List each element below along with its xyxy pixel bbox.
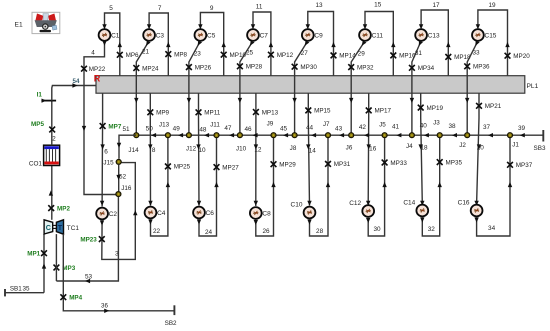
pipe number 18	[420, 144, 428, 151]
wire intake pipe 14 from plenum to C10	[306, 93, 312, 206]
svg-text:J9: J9	[267, 121, 274, 128]
measuring point MP12	[268, 52, 294, 59]
svg-text:54: 54	[73, 78, 80, 85]
measuring point MP10	[221, 52, 247, 59]
measuring point MP24	[133, 65, 159, 72]
svg-text:SB1: SB1	[10, 285, 22, 292]
measuring point MP14	[331, 53, 357, 60]
pipe number 13	[315, 2, 323, 9]
svg-text:14: 14	[309, 147, 317, 154]
measuring point MP13	[253, 109, 279, 116]
wire pipe 54 from injector to plenum	[52, 83, 96, 100]
svg-text:MP36: MP36	[473, 64, 490, 71]
pipe number 37 with flow arrow	[483, 124, 493, 137]
svg-text:MP27: MP27	[222, 164, 239, 171]
pipe number 23	[194, 51, 202, 58]
turbocharger TC1	[44, 220, 79, 234]
measuring point MP28	[237, 63, 263, 70]
cylinder C7	[247, 29, 268, 41]
svg-text:MP17: MP17	[375, 108, 392, 115]
wire intake pipe 8 from plenum to C4	[148, 93, 153, 206]
measuring point MP33	[382, 160, 408, 167]
wire exhaust pipe 23 from C5 to junction	[187, 40, 202, 135]
svg-text:J16: J16	[121, 185, 132, 192]
wire intake pipe 18 from plenum to C14	[419, 93, 425, 206]
svg-text:27: 27	[301, 50, 309, 57]
pipe number 43 with flow arrow	[335, 126, 344, 138]
svg-text:C: C	[46, 223, 51, 232]
svg-text:MP3: MP3	[62, 265, 75, 272]
svg-text:MP26: MP26	[195, 64, 212, 71]
measuring point MP29	[271, 161, 297, 168]
svg-text:MP11: MP11	[204, 110, 220, 117]
svg-text:49: 49	[173, 126, 181, 133]
pipe number 48 with flow arrow	[199, 126, 209, 137]
svg-text:C5: C5	[207, 32, 216, 39]
pipe number 52	[119, 174, 126, 181]
pipe number 32	[428, 226, 436, 233]
svg-text:TC1: TC1	[67, 225, 80, 232]
junction J6	[346, 133, 354, 152]
junction J9	[267, 121, 276, 138]
pipe number 41 with flow arrow	[392, 123, 401, 137]
wire exhaust loop pipe 24 from C6 to junction	[197, 135, 219, 236]
junction J15	[103, 159, 121, 166]
measuring point MP21	[476, 103, 502, 110]
pipe number 19	[488, 2, 496, 9]
svg-text:C1: C1	[111, 32, 120, 39]
measuring point MP26	[186, 64, 212, 71]
svg-text:36: 36	[101, 303, 108, 310]
measuring point MP7	[100, 123, 122, 130]
wire exhaust pipe 31 from C13 to junction	[410, 40, 423, 135]
svg-text:J4: J4	[406, 143, 413, 150]
svg-text:I1: I1	[37, 92, 43, 99]
svg-text:34: 34	[488, 225, 496, 232]
svg-text:25: 25	[246, 50, 254, 57]
pipe number 16	[369, 146, 377, 153]
junction J10	[236, 133, 247, 153]
svg-text:11: 11	[256, 4, 263, 11]
measuring point MP35	[437, 159, 463, 166]
junction J7	[323, 121, 331, 138]
cylinder C10	[291, 202, 316, 219]
svg-text:MP6: MP6	[126, 52, 139, 59]
wire intake pipe 12 from plenum to C8	[254, 93, 259, 206]
svg-text:MP31: MP31	[334, 161, 351, 168]
measuring point MP3	[54, 234, 76, 281]
svg-text:C10: C10	[291, 202, 303, 209]
svg-text:J3: J3	[433, 119, 440, 126]
svg-text:J6: J6	[346, 145, 353, 152]
svg-text:9: 9	[210, 5, 214, 12]
svg-text:29: 29	[358, 51, 366, 58]
svg-text:30: 30	[373, 226, 381, 233]
cylinder C9	[302, 29, 323, 41]
svg-text:MP25: MP25	[174, 164, 191, 171]
svg-text:J2: J2	[459, 142, 466, 149]
svg-text:48: 48	[199, 126, 207, 133]
wire intake loop pipe 9 for C5	[198, 13, 226, 76]
pipe number 39 with flow arrow	[518, 125, 526, 137]
wire exhaust pipe 29 from C11 to junction	[349, 40, 366, 135]
wire exhaust loop pipe 26 from C8 to junction	[254, 135, 276, 236]
measuring point MP27	[214, 164, 240, 171]
svg-text:CO1: CO1	[29, 161, 43, 168]
svg-text:MP20: MP20	[513, 53, 530, 60]
measuring point MP1	[27, 250, 47, 257]
svg-text:42: 42	[359, 124, 367, 131]
svg-text:MP22: MP22	[89, 66, 106, 73]
system boundary SB1	[5, 285, 44, 296]
svg-text:MP2: MP2	[57, 205, 70, 212]
pipe number 44 with flow arrow	[306, 125, 316, 138]
cylinder C6	[193, 207, 214, 219]
cylinder C4	[145, 207, 166, 219]
measuring point MP16	[390, 53, 416, 60]
wire exhaust pipe 25 from C7 to junction	[238, 40, 255, 135]
pipe number 28	[316, 228, 324, 235]
measuring point MP32	[348, 64, 374, 71]
svg-text:MP28: MP28	[246, 64, 263, 71]
cooler CO1	[29, 145, 60, 167]
pipe number 47 with flow arrow	[224, 125, 234, 138]
svg-text:50: 50	[146, 125, 154, 132]
pipe number 50 with flow arrow	[146, 125, 156, 137]
svg-text:C6: C6	[206, 210, 215, 217]
junction J3	[433, 119, 442, 137]
svg-text:16: 16	[369, 146, 377, 153]
pipe number 10	[198, 147, 206, 154]
svg-text:MP33: MP33	[390, 160, 407, 167]
svg-text:E1: E1	[15, 22, 23, 29]
measuring point MP6	[117, 52, 139, 59]
pipe number 46 with flow arrow	[244, 126, 257, 137]
pipe number 29	[358, 51, 366, 58]
measuring point MP11	[196, 109, 221, 116]
wire intake loop pipe 7 for C3	[147, 13, 171, 76]
svg-text:38: 38	[448, 123, 456, 130]
svg-text:MP13: MP13	[262, 109, 279, 116]
wire intake loop pipe 13 for C9	[306, 12, 336, 76]
svg-text:MP29: MP29	[279, 162, 296, 169]
pipe number 20	[477, 144, 485, 151]
pipe number 17	[432, 2, 440, 9]
measuring point MP19	[418, 105, 444, 112]
pipe number 54	[73, 78, 80, 85]
pipe number 40 with flow arrow	[420, 123, 429, 138]
svg-text:12: 12	[254, 147, 262, 154]
svg-text:8: 8	[152, 147, 156, 154]
svg-text:53: 53	[85, 273, 93, 280]
svg-text:J5: J5	[379, 121, 386, 128]
wire exhaust loop pipe 28 from C10 to junction	[307, 135, 330, 236]
svg-text:C4: C4	[157, 210, 166, 217]
svg-text:J8: J8	[290, 145, 297, 152]
wire exhaust loop pipe 32 from C14 to junction	[420, 135, 442, 236]
svg-text:J12: J12	[186, 146, 197, 153]
svg-text:MP30: MP30	[300, 64, 317, 71]
measuring point MP25	[165, 164, 191, 171]
measuring point MP15	[305, 108, 331, 115]
system boundary SB2	[165, 305, 177, 327]
cylinder C14	[403, 200, 428, 217]
svg-text:C8: C8	[262, 210, 271, 217]
wire intake loop pipe 11 for C7	[251, 12, 273, 76]
cylinder C3	[143, 29, 164, 41]
junction J14	[128, 133, 139, 154]
pipe number 36	[101, 303, 108, 310]
cylinder C13	[415, 29, 440, 41]
measuring point MP2	[48, 205, 70, 212]
svg-text:C14: C14	[403, 200, 415, 207]
svg-text:J11: J11	[210, 122, 220, 129]
measuring point MP4	[60, 294, 82, 301]
pipe number 24	[205, 229, 213, 236]
svg-text:35: 35	[22, 286, 30, 293]
pipe number 33	[472, 50, 480, 57]
measuring point MP37	[507, 162, 533, 169]
pipe number 51	[122, 126, 130, 133]
svg-text:51: 51	[122, 126, 130, 133]
wire intake pipe 35 from SB1 to compressor	[42, 234, 46, 293]
svg-text:MP24: MP24	[142, 65, 159, 72]
svg-text:47: 47	[224, 125, 232, 132]
pipe number 7	[158, 5, 162, 12]
svg-text:C15: C15	[485, 32, 497, 39]
svg-text:C7: C7	[260, 32, 269, 39]
measuring point MP31	[325, 161, 351, 168]
cylinder C5	[195, 29, 216, 41]
system boundary SB3	[534, 130, 546, 152]
svg-text:J1: J1	[512, 142, 519, 149]
wire intake pipe 16 from plenum to C12	[366, 93, 371, 206]
svg-text:20: 20	[477, 144, 485, 151]
svg-text:MP9: MP9	[156, 110, 169, 117]
pipe number 9	[210, 5, 214, 12]
pipe number 14	[309, 147, 317, 154]
pipe number 31	[415, 50, 423, 57]
pipe number 6	[104, 148, 108, 155]
wire pipe 2 from cooler to injector I1	[51, 101, 53, 146]
svg-text:22: 22	[153, 228, 161, 235]
wire intake loop pipe 19 for C15	[476, 10, 510, 76]
svg-text:MP15: MP15	[314, 108, 331, 115]
svg-text:39: 39	[518, 125, 526, 132]
pipe number 8	[152, 147, 156, 154]
svg-text:43: 43	[335, 126, 343, 133]
measuring point MP5	[31, 121, 55, 132]
cylinder C8	[250, 207, 271, 219]
svg-text:4: 4	[91, 50, 95, 57]
svg-text:R: R	[94, 73, 101, 83]
pipe number 27	[301, 50, 309, 57]
pipe number 45 with flow arrow	[280, 125, 288, 137]
svg-text:19: 19	[488, 2, 496, 9]
wire intake loop pipe 17 for C13	[419, 10, 451, 76]
svg-text:C9: C9	[314, 32, 323, 39]
svg-text:52: 52	[119, 174, 126, 181]
injector I1	[37, 92, 56, 103]
svg-text:17: 17	[432, 2, 440, 9]
pipe number 4	[91, 50, 95, 57]
svg-text:J10: J10	[236, 146, 247, 153]
pipe number 38 with flow arrow	[448, 123, 457, 137]
cylinder C15	[472, 29, 497, 41]
engine E1	[32, 12, 60, 33]
measuring point MP36	[464, 63, 490, 70]
svg-text:21: 21	[142, 49, 150, 56]
pipe number 5	[109, 5, 113, 12]
pipe number 3	[115, 251, 119, 258]
svg-text:PL1: PL1	[527, 83, 539, 90]
svg-text:MP4: MP4	[69, 295, 82, 302]
svg-text:10: 10	[198, 147, 206, 154]
pipe number 15	[374, 2, 382, 9]
measuring point MP20	[505, 53, 531, 60]
junction J4	[406, 133, 414, 151]
measuring point MP8	[165, 51, 187, 58]
wire intake loop pipe 5 for C1	[102, 13, 122, 76]
engine label E1	[15, 22, 23, 29]
svg-text:MP35: MP35	[446, 159, 463, 166]
measuring point MP34	[409, 65, 435, 72]
junction J8	[290, 133, 297, 152]
wire pipe 1 from compressor to cooler CO1	[49, 166, 53, 220]
cylinder C1	[99, 29, 120, 41]
wire pipe 36 from turbine to SB2	[63, 234, 174, 313]
measuring point MP9	[147, 109, 169, 116]
svg-text:SB3: SB3	[534, 145, 546, 152]
svg-text:MP19: MP19	[427, 105, 444, 112]
svg-text:6: 6	[104, 148, 108, 155]
svg-text:5: 5	[109, 5, 113, 12]
junction J13	[159, 122, 170, 138]
wire exhaust loop pipe 34 from C16 to junction	[474, 135, 512, 236]
measuring point MP30	[292, 64, 318, 71]
svg-text:SB2: SB2	[165, 320, 177, 327]
pipe number 11	[256, 4, 263, 11]
svg-text:40: 40	[420, 123, 428, 130]
wire pipe 52 from J15 to J16	[116, 165, 120, 192]
svg-text:7: 7	[158, 5, 162, 12]
measuring point MP18	[445, 54, 471, 61]
wire main exhaust manifold line	[136, 134, 543, 136]
svg-text:2: 2	[52, 135, 56, 142]
svg-text:MP21: MP21	[485, 103, 502, 110]
junction J12	[186, 133, 197, 153]
pipe number 2	[52, 135, 56, 142]
svg-text:J13: J13	[159, 122, 170, 129]
svg-text:MP12: MP12	[277, 52, 294, 59]
svg-text:MP8: MP8	[174, 51, 187, 58]
cylinder C11	[359, 29, 383, 41]
svg-text:23: 23	[194, 51, 202, 58]
svg-text:C3: C3	[156, 32, 165, 39]
pipe number 30	[373, 226, 381, 233]
svg-text:C16: C16	[458, 200, 470, 207]
svg-text:32: 32	[428, 226, 436, 233]
svg-text:26: 26	[262, 228, 270, 235]
svg-text:MP37: MP37	[516, 162, 533, 169]
pipe number 53	[85, 273, 93, 280]
wire pipe 53 from J16 to turbine	[56, 197, 118, 283]
junction J2	[459, 133, 469, 150]
svg-text:J15: J15	[103, 159, 114, 166]
svg-text:MP34: MP34	[418, 65, 435, 72]
svg-text:33: 33	[472, 50, 480, 57]
wire intake pipe 10 from plenum to C6	[196, 93, 201, 206]
svg-text:J7: J7	[323, 121, 330, 128]
measuring point MP22	[81, 66, 106, 73]
pipe number 25	[246, 50, 254, 57]
junction J1	[508, 133, 520, 149]
pipe number 34	[488, 225, 496, 232]
svg-text:15: 15	[374, 2, 382, 9]
svg-text:46: 46	[244, 126, 252, 133]
svg-text:41: 41	[392, 123, 400, 130]
svg-text:18: 18	[420, 144, 428, 151]
wire intake loop pipe 15 for C11	[363, 12, 396, 76]
pipe number 12	[254, 147, 262, 154]
cylinder C12	[349, 200, 374, 217]
wire intake pipe 20 from plenum to C16	[474, 93, 481, 206]
measuring point MP23	[80, 236, 104, 243]
wire exhaust pipe 3 from C2 to junction J15	[100, 163, 138, 260]
svg-text:28: 28	[316, 228, 324, 235]
pipe number 21	[142, 49, 150, 56]
svg-text:C2: C2	[109, 211, 118, 218]
svg-text:MP32: MP32	[357, 64, 374, 71]
svg-text:44: 44	[306, 125, 314, 132]
cylinder C2	[96, 208, 117, 220]
pipe number 42 with flow arrow	[359, 124, 369, 138]
wire exhaust pipe 4 from C1 to junction J16	[82, 41, 119, 195]
wire intake pipe 6 from plenum to C2	[100, 93, 105, 206]
wire exhaust pipe 27 from C9 to junction	[292, 40, 309, 135]
measuring point MP17	[366, 108, 392, 115]
svg-text:C11: C11	[372, 32, 384, 39]
plenum PL1	[96, 76, 539, 94]
junction J5	[379, 121, 387, 137]
wire exhaust loop pipe 30 from C12 to junction	[366, 135, 387, 236]
svg-text:MP5: MP5	[31, 121, 44, 128]
node R label on plenum	[94, 73, 101, 83]
pipe number 49 with flow arrow	[173, 126, 183, 138]
svg-text:MP23: MP23	[80, 236, 97, 243]
svg-text:C13: C13	[428, 32, 440, 39]
wire exhaust pipe 21 from C3 to junction	[134, 40, 151, 135]
wire exhaust pipe 33 from C15 to junction	[465, 40, 480, 135]
svg-text:31: 31	[415, 50, 423, 57]
svg-text:MP1: MP1	[27, 251, 40, 258]
svg-text:37: 37	[483, 124, 491, 131]
junction J11	[210, 122, 220, 138]
svg-text:45: 45	[280, 125, 288, 132]
svg-text:24: 24	[205, 229, 213, 236]
wire exhaust loop pipe 22 from C4 to junction	[148, 135, 170, 236]
junction J16	[116, 185, 132, 196]
pipe number 26	[262, 228, 270, 235]
svg-text:C12: C12	[349, 200, 361, 207]
pipe number 22	[153, 228, 161, 235]
svg-text:T: T	[58, 223, 63, 232]
wire pipe 51 from junction J14 to J15	[117, 135, 137, 159]
svg-text:MP7: MP7	[108, 123, 121, 130]
svg-text:J14: J14	[128, 147, 139, 154]
cylinder C16	[458, 200, 483, 217]
svg-text:13: 13	[315, 2, 323, 9]
